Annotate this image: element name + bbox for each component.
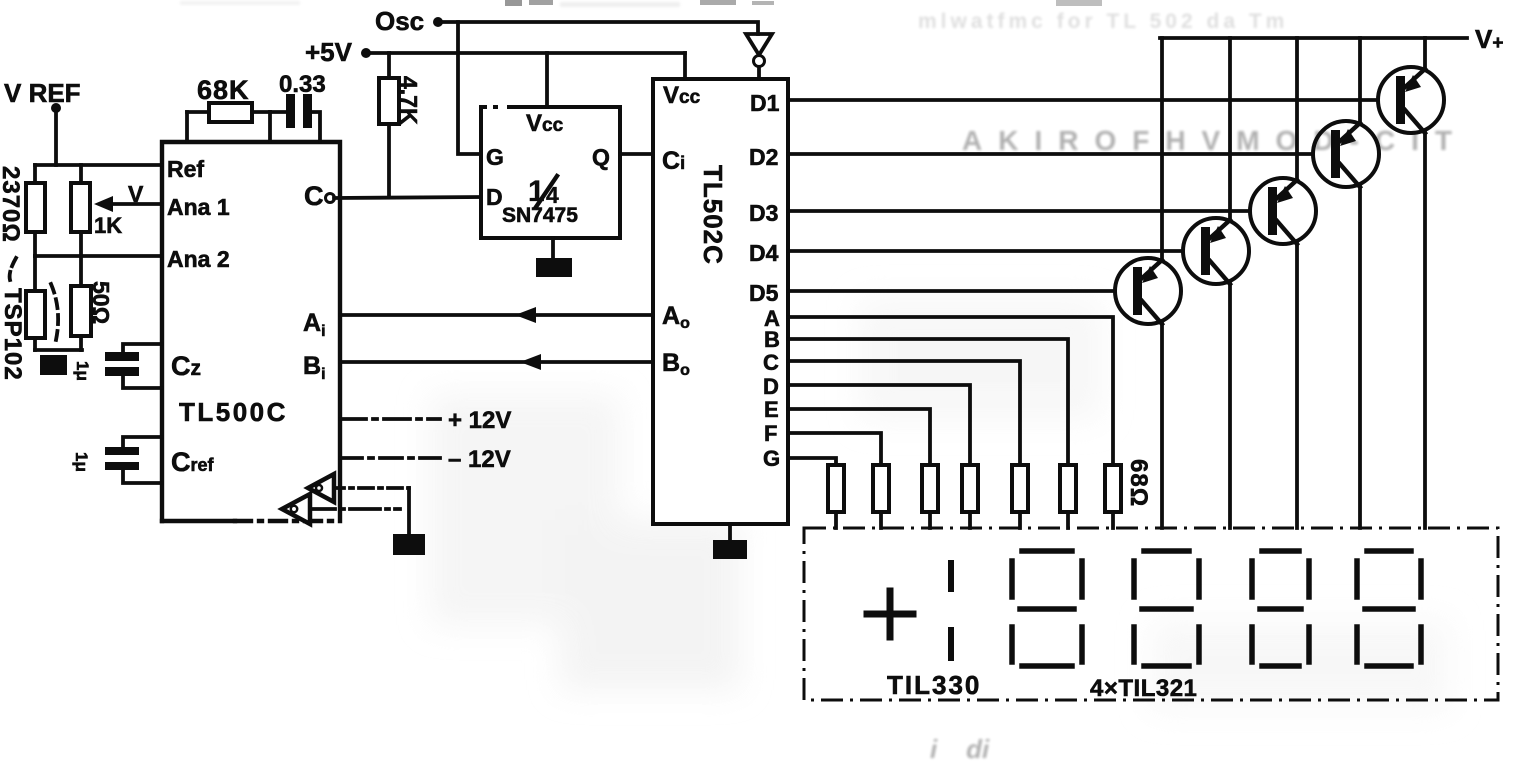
svg-text:Ref: Ref [167, 156, 204, 182]
label 4xTIL321 [1090, 675, 1197, 702]
pin Q label [592, 144, 610, 170]
label 1u Cref [72, 452, 91, 472]
svg-text:TL500C: TL500C [179, 397, 288, 427]
wire +12V [340, 417, 440, 421]
svg-text:Vcc: Vcc [526, 110, 564, 137]
label TSP102 [0, 288, 26, 381]
display digit 1 (TIL330) [948, 563, 954, 658]
svg-text:i di: i di [930, 734, 990, 764]
wire segment C [788, 361, 1020, 465]
pin B label [764, 327, 780, 352]
IC U1 TL500C box [162, 142, 340, 521]
wire Ao to Ai [340, 313, 653, 317]
IC U3 TL502C box [653, 79, 788, 524]
svg-text:C: C [304, 181, 324, 211]
node V REF terminal dot [51, 103, 61, 113]
svg-text:V REF: V REF [4, 78, 81, 108]
pin C label [304, 181, 324, 211]
wire -12V [340, 456, 440, 460]
resistor R-E [922, 465, 938, 528]
display digit 8 second [1134, 551, 1199, 666]
wiper arrowhead [94, 196, 113, 212]
svg-text:TL502C: TL502C [698, 165, 728, 265]
pin Cref label [171, 447, 215, 477]
svg-text:+5V: +5V [305, 37, 353, 67]
ground G4 [393, 488, 425, 555]
svg-text:V: V [128, 181, 144, 207]
capacitor Cz plates [105, 352, 139, 376]
transistor Q1 [1378, 38, 1444, 528]
label 68K [197, 75, 250, 105]
wire segment E [788, 409, 930, 465]
wire +5V to Vcc U3 [683, 53, 687, 79]
svg-text:D1: D1 [750, 90, 780, 116]
label -12V [448, 446, 511, 473]
wire bottom rail [35, 348, 82, 352]
pin G2 label [763, 446, 780, 471]
svg-text:AKIROFHVMOD-CIT: AKIROFHVMOD-CIT [962, 125, 1468, 156]
label Vcc U3 [663, 82, 701, 109]
wire Osc to inverter [442, 22, 758, 34]
svg-text:TIL330: TIL330 [887, 670, 981, 700]
pin A label [764, 306, 780, 331]
potentiometer R 1K [71, 165, 90, 256]
wire Osc to G [458, 22, 481, 154]
inverter clock buffer [746, 34, 772, 79]
pin Ref label [167, 156, 204, 182]
pin Cz label [171, 351, 201, 381]
pin D4 label [749, 240, 779, 266]
resistor 50 ohm [71, 256, 91, 350]
svg-text:Ana 1: Ana 1 [167, 194, 230, 220]
resistor 68K [187, 103, 270, 142]
wire segment F [788, 433, 881, 465]
label 2370 ohm [0, 166, 24, 243]
label 4.7K [396, 76, 422, 125]
svg-text:2370Ω: 2370Ω [0, 166, 24, 243]
label +12V [448, 407, 511, 434]
wire analog ground lower [305, 507, 400, 511]
label V+ [1475, 24, 1503, 54]
wire D2 [788, 152, 1333, 156]
svg-text:D4: D4 [749, 240, 779, 266]
pin C2 label [763, 350, 779, 375]
svg-text:4,7K: 4,7K [396, 76, 422, 125]
pin Ai label [303, 309, 326, 340]
svg-text:68K: 68K [197, 75, 250, 105]
arrowhead analog ground upper [308, 474, 334, 502]
svg-text:Osc: Osc [375, 6, 424, 36]
pin Bo label [662, 349, 690, 379]
pin Ana 2 label [167, 246, 230, 272]
svg-text:0.33: 0.33 [279, 71, 326, 98]
pin Ana 1 label [167, 194, 230, 220]
svg-text:Q: Q [592, 144, 610, 170]
label SN7475 [502, 204, 578, 227]
wire Ana1 wiper [110, 202, 162, 206]
wire analog ground upper [330, 486, 409, 490]
display digit 8 third [1252, 551, 1309, 666]
resistor R-G 68ohm [828, 465, 844, 528]
pin D label [486, 184, 503, 210]
wire D5 [788, 289, 1135, 293]
paper bleed blotches [430, 300, 1450, 710]
wire segment B [788, 339, 1068, 465]
svg-text:D3: D3 [749, 200, 778, 226]
arrowhead Bo [520, 354, 541, 370]
svg-text:F: F [764, 421, 777, 446]
wire D3 [788, 209, 1270, 213]
pin Bi label [303, 352, 326, 383]
wire C to D [334, 197, 481, 198]
svg-text:1μ: 1μ [73, 361, 92, 381]
svg-text:E: E [764, 397, 779, 422]
arrowhead Ao [515, 307, 536, 323]
svg-text:TSP102: TSP102 [0, 288, 26, 381]
display digit 8 fourth [1357, 551, 1421, 666]
pin E label [764, 397, 779, 422]
label 68 ohm [1125, 459, 1152, 507]
label Osc [375, 6, 424, 36]
resistor R-A [1105, 465, 1121, 528]
svg-text:50Ω: 50Ω [88, 281, 114, 324]
pin D5 label [749, 280, 779, 306]
transistor Q5 [1115, 38, 1181, 528]
svg-text:1K: 1K [94, 213, 122, 238]
arrowhead analog ground lower [282, 494, 310, 524]
ground G2 [536, 238, 572, 277]
pin Ci label [662, 147, 685, 175]
svg-text:– 12V: – 12V [448, 446, 511, 473]
wire Ref rail [35, 163, 162, 167]
transistor Q3 [1250, 38, 1316, 528]
label V [128, 181, 144, 207]
capacitor Cz 1u bracket [123, 344, 162, 388]
svg-text:Vcc: Vcc [663, 82, 701, 109]
svg-text:G: G [486, 144, 504, 170]
resistor R-C [1012, 465, 1028, 528]
pin D1 label [750, 90, 780, 116]
node +5V dot [361, 48, 371, 58]
svg-text:+ 12V: + 12V [448, 407, 511, 434]
display module dashed box [804, 528, 1498, 700]
resistor 4.7K [379, 53, 399, 197]
thermal coupling dashed arc [10, 258, 59, 340]
wire D1 [788, 98, 1398, 102]
svg-text:B: B [764, 327, 780, 352]
label 0.33 [279, 71, 326, 98]
pin C terminal circle [326, 194, 335, 203]
label 50 ohm [88, 281, 114, 324]
pin D6 label [763, 374, 779, 399]
resistor 2370 ohm [26, 165, 45, 256]
resistor R-B [1060, 465, 1076, 528]
svg-text:SN7475: SN7475 [502, 204, 578, 227]
label 1u Cz [73, 361, 92, 381]
transistor Q2 [1313, 38, 1379, 528]
wire Ana2 rail [35, 254, 162, 258]
resistor R-F [873, 465, 889, 528]
svg-text:C: C [763, 350, 779, 375]
svg-text:4×TIL321: 4×TIL321 [1090, 675, 1197, 702]
wire segment G [788, 458, 836, 465]
svg-text:D: D [763, 374, 779, 399]
ground G1 [40, 355, 67, 375]
IC U2 SN7475 box [481, 104, 620, 238]
label Vcc U2 [526, 110, 564, 137]
pin G label [486, 144, 504, 170]
wire Vcc stub U2 [545, 53, 549, 107]
wire segment D [788, 385, 970, 465]
svg-text:D5: D5 [749, 280, 779, 306]
svg-text:Ana 2: Ana 2 [167, 246, 230, 272]
label +5V [305, 37, 353, 67]
wire Bo to Bi [340, 360, 653, 364]
display digit 8 first [1012, 551, 1082, 666]
node Osc dot [433, 17, 443, 27]
resistor R-D [962, 465, 978, 528]
wire V+ rail [1160, 36, 1467, 40]
capacitor Cref 1u bracket [123, 437, 162, 483]
display plus sign [867, 591, 913, 637]
pin F label [764, 421, 777, 446]
label V REF [4, 78, 81, 108]
wire segment A [788, 317, 1113, 465]
wire Q to Ci [620, 152, 653, 156]
label 1K [94, 213, 122, 238]
capacitor Cref plates [105, 447, 139, 470]
wire +5V rail [370, 51, 685, 55]
ground G3 [713, 524, 747, 559]
wire V REF stem [54, 112, 58, 165]
transistor Q4 [1183, 38, 1249, 528]
pin D2 label [749, 144, 778, 170]
thermistor TSP102 [26, 256, 45, 350]
svg-text:G: G [763, 446, 780, 471]
capacitor 0.33 [270, 94, 320, 142]
svg-text:1μ: 1μ [72, 452, 91, 472]
label 1/4 [528, 175, 559, 208]
label TIL330 [887, 670, 981, 700]
svg-text:D: D [486, 184, 503, 210]
pin Ao label [662, 302, 690, 332]
pin D3 label [749, 200, 778, 226]
svg-text:68Ω: 68Ω [1125, 459, 1152, 507]
svg-text:mlwatfmc for TL 502 da Tm: mlwatfmc for TL 502 da Tm [918, 10, 1288, 33]
wire D4 [788, 249, 1203, 253]
svg-text:D2: D2 [749, 144, 778, 170]
